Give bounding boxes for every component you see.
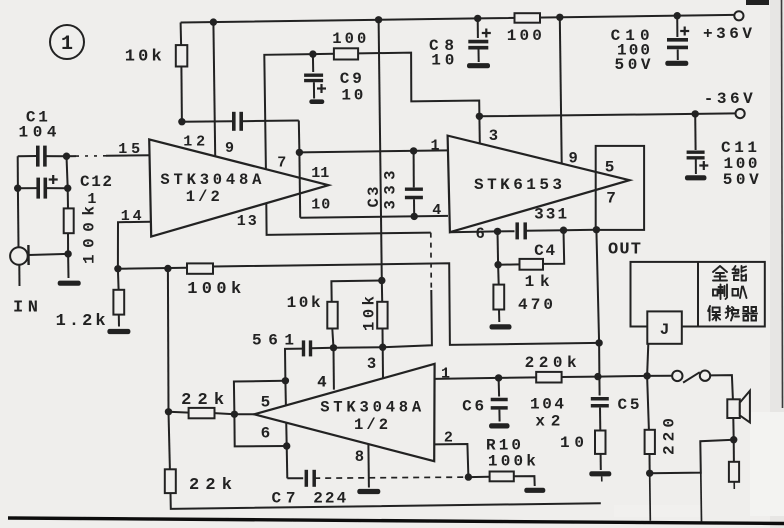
wire pin6 row b [525,229,563,232]
svg-text:224: 224 [313,490,346,508]
wire pin3b stub [382,347,384,378]
wire 100b [313,53,334,55]
svg-text:1: 1 [87,191,96,208]
op-amp U1 STK3048A 1/2 [149,139,328,236]
node feed-tee [378,277,385,284]
wire 561 row [334,346,383,349]
right page edge shading [770,0,784,528]
wire C5 to R10ohm [599,408,601,431]
capacitor C8 plus [482,32,491,34]
capacitor C9 [304,73,323,76]
label CN bao [708,306,720,321]
capacitor 561 [302,340,305,356]
wire 220 to bar [649,473,652,521]
node pin6 [494,228,501,235]
wire C7 col [286,446,289,478]
wire R10 right [514,476,535,486]
wire pin12 [213,22,215,156]
label CN qi [743,307,757,321]
svg-text:331: 331 [534,206,567,224]
wire pin13 net b [430,233,433,290]
capacitor C4 331 [515,222,519,239]
resistor 10k (fb1) [327,302,337,329]
wire tee left [331,281,381,302]
svg-text:10k: 10k [287,294,321,312]
wire C6 top [498,378,501,397]
svg-text:10: 10 [311,196,330,213]
node sw-junction [643,372,650,379]
wire jack column mid [17,188,20,247]
node out-cross [594,373,601,380]
wire 100k row [118,268,187,269]
ground C8 [467,63,490,68]
switch contact A [672,371,682,381]
wire left col [167,269,170,412]
wire relay to switch node [647,344,648,376]
svg-text:100: 100 [507,27,542,45]
capacitor C8 [468,40,488,44]
node C6 [495,374,502,381]
resistor 1k [520,259,544,270]
wire pin15 b [106,154,150,157]
svg-text:5: 5 [261,394,271,412]
resistor 100k (fb) [187,263,213,273]
wire rail to R-10k [180,23,183,46]
resistor 220 [645,430,655,454]
svg-text:4: 4 [317,374,326,392]
svg-text:561: 561 [252,332,294,350]
node pin14-1k2 [114,265,121,272]
switch blade [683,372,700,382]
svg-text:22k: 22k [189,476,232,495]
wire pin56 loop b [234,414,286,446]
wire under speaker [733,440,735,462]
svg-text:3: 3 [489,127,498,145]
wire 470 top [497,265,500,285]
wire C10 gnd [677,50,679,61]
wire R100k to node [67,233,69,254]
svg-text:C12: C12 [80,173,112,191]
wire 1.2k gnd [118,315,120,327]
ground 470 [490,324,512,329]
svg-text:3: 3 [367,355,376,373]
svg-text:333: 333 [382,171,400,210]
resistor 10k (fb2) [377,302,387,329]
svg-text:7: 7 [606,190,616,208]
box protector divider [697,262,699,327]
node 1k left [494,261,501,268]
wire C1 right [45,155,67,157]
jack contact bar [27,245,30,265]
node C1-pin15 [63,153,70,160]
svg-text:9: 9 [569,150,578,168]
svg-text:104: 104 [19,124,57,142]
wire pin56 loop [234,381,286,415]
wire C1 left [18,155,36,157]
wire C9 top [312,54,314,72]
wire 1.2k top [117,269,120,290]
wire jack to gnd node [29,254,69,255]
svg-text:50V: 50V [615,56,651,74]
wire 220 top [647,376,649,430]
wire C11 top [694,114,696,150]
wire capline right [241,120,299,123]
switch contact B [700,371,710,381]
node tip [231,411,238,418]
node C3 top [410,147,417,154]
svg-text:1: 1 [431,138,440,155]
ground input [58,281,81,286]
wire 22k1 row [169,411,190,414]
wire C10 top [676,16,678,37]
wire pin11 line [299,150,447,152]
wire C12 links [18,187,37,189]
node pin11-line [296,149,303,156]
scan bottom bar [8,518,784,524]
wire -36V rail [479,113,735,116]
svg-text:4: 4 [432,202,441,219]
resistor 100 (pin9) [334,48,358,59]
node out-join [595,339,602,346]
box protector [631,262,765,327]
svg-text:6: 6 [261,425,271,443]
ground C9 [309,99,324,104]
label CN neng [733,266,747,281]
capacitor C11 [687,150,705,153]
wire C8 gnd [478,50,480,63]
capacitor C2 [232,112,236,131]
node pin4b [330,344,337,351]
capacitor C11 plus [699,164,708,166]
node 22k1 left [165,408,172,415]
wire R10 row [468,476,490,478]
wire capline left [182,120,232,123]
wire feed to R10k2 [381,281,383,302]
wire bottom long [171,493,601,509]
wire speaker bottom [732,418,734,440]
wire pin13 net a [266,203,431,235]
label CN hu [726,306,740,321]
svg-text:220: 220 [660,418,678,455]
capacitor C10 plus [680,30,689,32]
svg-text:100: 100 [332,30,366,48]
wire return L [650,440,734,474]
speaker driver [727,399,740,418]
svg-text:470: 470 [518,296,553,314]
capacitor C7 [305,470,309,487]
connector IN jack [10,247,28,265]
resistor 220k [536,372,561,383]
wire pin7 column [298,121,301,153]
node C12 right [64,185,71,192]
wire C7 dashes [314,477,468,478]
wire pin14 [118,222,150,269]
wire tip link [234,413,254,415]
wire return col to bar [700,473,703,522]
wire C8 top [477,18,479,38]
capacitor C9 plus [317,87,326,89]
wire to input gnd [67,254,69,278]
resistor R10 [490,472,514,482]
resistor 100k (input) [64,208,74,233]
ground C10 [665,61,688,66]
svg-text:1/2: 1/2 [186,188,220,206]
svg-text:9: 9 [225,140,234,157]
wire 10 gnd stub [601,476,603,481]
resistor 22k (in) [189,408,215,418]
node OUT [593,226,600,233]
ground pin8 [357,489,380,494]
wire pin15 dashes [76,155,106,157]
node input gnd [64,250,71,257]
svg-text:10k: 10k [361,296,379,331]
node pin3 rail [476,113,483,120]
svg-text:50V: 50V [723,171,759,189]
node rail36n-C11 [692,110,699,117]
capacitor C10 [667,38,688,42]
node rail-C10 [674,12,681,19]
svg-text:104: 104 [530,396,564,414]
scan edge line right [782,0,783,408]
wire 220 bottom [649,454,651,473]
ground C11 [685,175,707,180]
svg-text:1/2: 1/2 [354,416,388,434]
wire pin1 row b [562,376,648,377]
wire pin10 line [300,216,448,218]
resistor 10k (top) [176,45,188,66]
svg-text:7: 7 [277,154,286,171]
wire 561 row b [311,347,333,349]
wire C7 lead [287,477,303,479]
node C12 left [14,185,21,192]
ground 1.2k [107,329,130,334]
node pin3b [379,344,386,351]
ground R10 [524,488,545,493]
capacitor C12 [36,178,40,199]
wire R10k2 to pin3b [382,329,384,348]
wire 10 gnd [600,454,602,470]
wire pin2 net [434,444,468,477]
wire 1k row [498,263,520,265]
svg-text:J: J [660,321,670,339]
wire R10k to node [180,67,183,122]
wire pin6 down [497,231,500,264]
svg-text:11: 11 [311,165,329,182]
wire mid col [285,381,286,446]
box U2 output pins [596,146,644,230]
svg-text:8: 8 [355,448,364,466]
scan mark top right [746,0,769,5]
svg-text:13: 13 [237,213,257,230]
svg-text:5: 5 [605,159,615,177]
wire 100b to pin3 col [358,53,479,117]
node C3 bottom [411,213,418,220]
wire R10k1 to node [332,329,333,348]
wire 22k2 col [169,412,170,470]
ground C6 [489,423,510,428]
node speaker-return [730,436,737,443]
wire pin13 net c [383,290,432,347]
wire pin8 [367,444,370,487]
resistor speaker shunt [729,462,739,482]
wire C3 leads [413,151,415,188]
svg-text:1: 1 [441,366,450,383]
node pin5 junc [282,377,289,384]
wire jack column top [17,156,19,188]
op-amp U2 STK6153 [448,136,630,233]
wire long feed [379,20,382,281]
speaker cone [740,391,750,423]
op-amp U3 STK3048A 1/2 [254,364,434,461]
svg-text:C4: C4 [534,242,555,260]
terminal -36V [736,109,745,118]
scan white patch bottom right [750,412,784,516]
label CN la [713,285,727,300]
resistor 100 (rail) [515,13,541,23]
svg-text:10k: 10k [125,48,162,67]
wire +36V rail [181,15,735,23]
wire pin15 col [67,156,68,188]
wire pin4b stub [333,348,335,390]
wire 22k1 to tip node [215,413,235,414]
wire U2 pin9 feed [560,17,562,163]
wire 470 gnd [498,310,500,323]
node 100k-22k [164,265,171,272]
wire shunt below [733,482,735,489]
resistor 22k (gnd) [165,469,176,493]
capacitor C6 [491,398,508,402]
wire C9 gnd [313,82,315,98]
node pin6b junc [283,442,290,449]
ground 10ohm [589,471,611,476]
wire sw feed [647,375,672,377]
capacitor C1 [36,146,40,167]
node 331 right [560,227,567,234]
node R10 left [465,473,472,480]
wire pin9 net [264,54,313,169]
wire pin6 row [450,231,515,232]
wire C6 gnd [498,410,500,422]
terminal +36V [734,11,743,20]
wire pin1 row [435,377,537,379]
wire pin15 a [67,155,77,157]
node 220 bottom [646,470,653,477]
node rail-pin12 [210,18,217,25]
wire 1k right up [543,230,564,264]
box relay J [647,311,682,343]
resistor 10 (out) [595,431,606,454]
wire pin7 column lower [298,152,301,217]
label CN ba [733,287,747,299]
resistor 470 [493,285,504,310]
scan white patch mid bar [614,505,704,517]
wire jack below [18,265,20,286]
figure number circle 1 [50,25,84,59]
node R10k-capline [178,118,185,125]
svg-text:STK6153: STK6153 [474,176,562,194]
capacitor C3 [405,187,423,190]
wire 100k row b [213,263,599,345]
label CN quan [713,266,727,281]
node rail-R100b [556,14,563,21]
node rail-longline [375,16,382,23]
capacitor C5 [591,397,609,401]
svg-text:1: 1 [61,33,73,56]
wire OUT line [596,230,599,396]
svg-text:22k: 22k [181,391,224,410]
resistor 1.2k [113,290,124,315]
node pin9-C9 [309,50,316,57]
wire C12 to R100k [67,188,69,208]
node rail-C8 [474,15,481,22]
wire 561 left [285,349,304,381]
wire C11 gnd [695,159,697,174]
capacitor C12 plus [49,178,58,180]
wire pin3 stub [478,116,480,143]
svg-text:OUT: OUT [608,241,641,260]
svg-text:6: 6 [476,225,485,243]
wire sw to speaker [710,375,733,399]
